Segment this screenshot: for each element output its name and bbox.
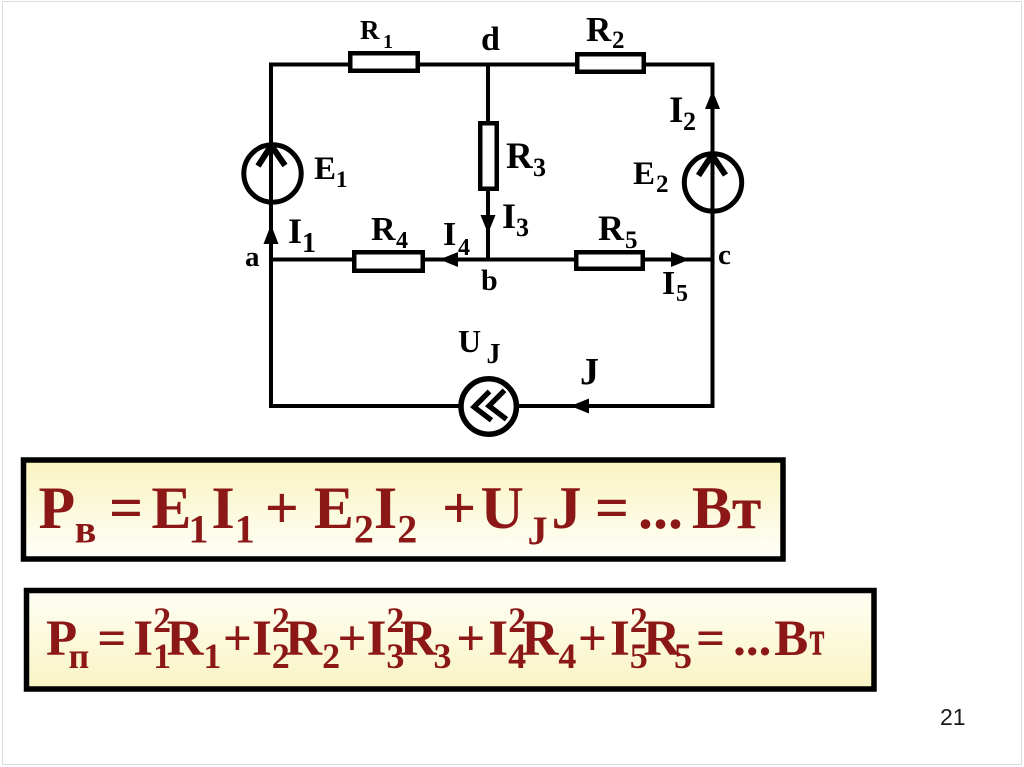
resistor R5 [576,252,643,269]
svg-text:I: I [288,211,302,251]
svg-text:4: 4 [558,636,576,676]
svg-text:I: I [374,475,397,541]
svg-text:E: E [314,475,354,541]
svg-text:2: 2 [683,107,696,136]
node c [718,239,731,271]
svg-text:+: + [456,611,485,667]
wire middle vertical d-b [486,65,490,260]
svg-text:I: I [367,611,387,667]
page number [940,704,966,730]
svg-text:2: 2 [397,507,417,552]
svg-text:2: 2 [656,171,669,198]
svg-text:=: = [109,475,143,541]
svg-text:+: + [338,611,367,667]
svg-text:+: + [223,611,252,667]
svg-text:I: I [252,611,272,667]
label R4 [371,211,408,254]
svg-text:1: 1 [383,31,393,53]
svg-text:I: I [211,475,234,541]
node b [481,264,498,297]
svg-text:2: 2 [612,27,625,54]
svg-text:E: E [151,475,191,541]
svg-text:1: 1 [235,507,255,552]
label I2 [669,90,696,136]
source E1 (circle with arrow) [244,143,301,204]
svg-text:3: 3 [516,213,529,242]
svg-text:c: c [718,239,731,271]
label I1 [288,211,316,259]
svg-text:J: J [528,508,548,553]
svg-text:+: + [442,475,476,541]
svg-text:1: 1 [336,167,348,192]
svg-text:J: J [552,475,582,541]
wire middle horizontal a-b-c [271,258,713,262]
svg-text:R: R [285,611,323,667]
svg-text:+: + [265,475,299,541]
svg-text:R: R [371,211,396,248]
svg-text:1: 1 [189,507,209,552]
svg-text:2: 2 [354,507,374,552]
current arrow I3 [481,215,496,234]
wire bottom side (branch with UJ) [269,404,715,408]
svg-text:1: 1 [203,636,221,676]
wire top side d [269,63,715,67]
svg-text:R: R [506,136,534,177]
resistor R4 [354,252,423,271]
svg-text:b: b [481,264,498,297]
formula box Pв [24,460,784,559]
svg-text:I: I [669,90,683,131]
current arrow I1 [264,225,279,245]
node a [245,241,260,273]
svg-text:21: 21 [940,704,966,730]
svg-text:5: 5 [676,281,688,307]
svg-text:+: + [578,611,607,667]
svg-text:I: I [133,611,153,667]
svg-text:I: I [662,265,675,302]
svg-text:E: E [314,151,336,187]
svg-text:I: I [502,196,516,236]
svg-text:...: ... [638,475,683,541]
svg-text:a: a [245,241,260,273]
resistor R2 [577,54,644,72]
formula Pп = I1²R1 + I2²R2 + I3²R3 + I4²R4 + I5²R5 = ... Вт [46,600,825,676]
svg-text:R: R [167,611,205,667]
resistor R3 [480,123,497,189]
svg-text:4: 4 [458,235,470,261]
svg-text:U: U [481,475,524,541]
svg-text:В: В [774,611,808,667]
label R3 [506,136,546,182]
svg-text:Вт: Вт [692,475,762,541]
label J [580,351,599,393]
svg-text:5: 5 [625,227,638,254]
source E2 (circle with arrow) [684,153,741,213]
svg-text:I: I [443,216,456,253]
node d [481,21,500,58]
current arrow I5 [671,252,690,267]
label E1 [314,151,348,192]
label E2 [633,156,669,198]
formula Pв = E1I1 + E2I2 + UJJ = ... Вт [39,475,762,553]
svg-text:3: 3 [434,636,452,676]
wire right side (branch with E2) [711,63,715,409]
wire left side (branch with E1) [269,63,273,409]
svg-text:P: P [39,475,76,541]
svg-text:т: т [810,611,825,667]
svg-text:п: п [69,636,90,676]
svg-text:в: в [75,507,97,552]
label UJ [458,323,501,370]
svg-text:3: 3 [533,153,546,182]
svg-text:4: 4 [396,228,408,254]
svg-text:E: E [633,156,655,192]
svg-text:1: 1 [302,228,316,259]
svg-text:I: I [610,611,630,667]
svg-text:U: U [458,323,481,359]
svg-text:5: 5 [674,636,692,676]
svg-text:=: = [97,611,126,667]
svg-text:=: = [595,475,629,541]
label R1 [360,15,393,53]
resistor R1 [350,53,418,71]
current arrow J [571,399,590,414]
current arrow I4 [440,252,459,267]
svg-text:...: ... [733,611,771,667]
svg-text:J: J [487,339,501,370]
label I5 [662,265,688,307]
formula box Pп [27,591,875,690]
svg-text:=: = [696,611,725,667]
svg-text:R: R [586,10,612,49]
label I4 [443,216,470,261]
current arrow I2 [705,91,720,110]
svg-text:R: R [598,208,625,248]
current source UJ (circle with double chevron) [461,379,516,434]
svg-text:R: R [522,611,560,667]
svg-text:I: I [488,611,508,667]
label I3 [502,196,529,242]
label R5 [598,208,638,254]
svg-text:d: d [481,21,500,58]
svg-text:R: R [360,15,380,45]
svg-text:J: J [580,351,599,393]
label R2 [586,10,625,54]
svg-text:R: R [400,611,438,667]
